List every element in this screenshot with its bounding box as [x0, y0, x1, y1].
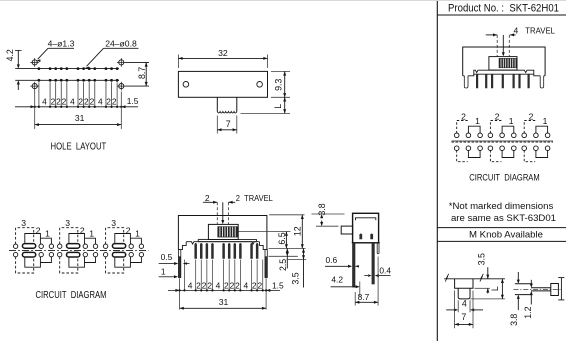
right mounting leg	[265, 250, 267, 278]
mk panel line with breaks	[444, 278, 505, 280]
svg-text:2: 2	[252, 280, 257, 290]
pole 2 terminals bottom row	[58, 252, 62, 256]
hole pitch extension lines	[38, 82, 40, 106]
svg-text:2: 2	[495, 111, 500, 121]
svg-text:TRAVEL: TRAVEL	[525, 26, 555, 36]
dim 7 top view	[216, 116, 218, 134]
mks stem lines	[531, 287, 551, 289]
pole 3 wire position 1 top	[130, 238, 141, 244]
mks cap height bracket	[560, 278, 562, 300]
rp pole 2 wire position 2 top (dashed)	[490, 121, 501, 134]
pin area top edge with notches	[186, 242, 259, 244]
svg-text:31: 31	[75, 113, 85, 123]
pin pitch chain dimension	[168, 289, 280, 291]
top view handle sides	[216, 97, 218, 111]
mks cap	[551, 284, 559, 296]
mks center line	[514, 288, 561, 290]
dim 31 hole layout	[34, 90, 36, 129]
svg-text:3.8: 3.8	[509, 314, 519, 326]
svg-text:3: 3	[21, 218, 26, 228]
rp hatched bus line	[452, 140, 554, 142]
rp body outline	[463, 47, 545, 76]
top view handle serrated end	[217, 112, 237, 114]
front body outline	[178, 216, 267, 250]
svg-text:4.2: 4.2	[331, 275, 343, 285]
svg-text:are same as SKT-63D01: are same as SKT-63D01	[451, 213, 556, 224]
rp pole 1 wire position 2 bottom (dashed)	[457, 150, 468, 162]
mk flange bottom extension	[475, 287, 490, 289]
pole 2 wire position 2 bottom	[69, 257, 85, 267]
side view of switch	[312, 203, 392, 305]
mk flange	[455, 279, 473, 289]
svg-text:1.2: 1.2	[523, 306, 533, 318]
dim 31 front view	[180, 307, 267, 309]
dim 3.8 side view	[312, 213, 345, 215]
svg-text:2.5: 2.5	[278, 259, 288, 271]
pole 3 slider contact top	[112, 244, 125, 249]
svg-text:2: 2	[62, 97, 67, 107]
svg-text:HOLE LAYOUT: HOLE LAYOUT	[51, 141, 107, 152]
rp pole 2 wire position 1 bottom	[502, 150, 514, 157]
svg-text:4: 4	[514, 26, 519, 36]
dim 2.5	[286, 248, 288, 268]
rp left small leg	[464, 76, 468, 88]
rp knob base	[489, 57, 517, 71]
svg-text:4: 4	[244, 280, 249, 290]
svg-text:2: 2	[205, 193, 210, 203]
rp pole 3 wire position 1 top	[536, 126, 548, 133]
extension line seat	[269, 247, 306, 249]
svg-text:2: 2	[461, 111, 466, 121]
pole 1 wire position 2 top	[25, 234, 41, 245]
svg-text:CIRCUIT DIAGRAM: CIRCUIT DIAGRAM	[36, 290, 107, 301]
side legs	[352, 243, 355, 287]
rp pole 3 wire position 2 bottom (dashed)	[524, 150, 535, 162]
contact pins front	[194, 243, 197, 259]
right circuit diagram (3 poles)	[452, 111, 554, 183]
svg-text:7: 7	[226, 119, 231, 129]
mk stem	[458, 288, 470, 299]
dim 3.5	[303, 248, 305, 287]
svg-text:4: 4	[462, 299, 467, 309]
left mounting leg	[179, 250, 181, 278]
svg-text:1: 1	[509, 116, 514, 126]
rp travel center line	[502, 35, 504, 53]
top view body rectangle	[178, 71, 267, 97]
rp pole 1 wire position 2 top (dashed)	[457, 121, 468, 134]
svg-text:0.6: 0.6	[325, 255, 337, 265]
svg-text:1: 1	[135, 229, 140, 239]
rp knob ribs	[499, 58, 517, 67]
body side steps right	[260, 242, 267, 250]
extension line pin tips	[287, 258, 307, 260]
svg-text:2: 2	[84, 97, 89, 107]
svg-text:2: 2	[112, 97, 117, 107]
travel center line with arrow	[222, 202, 224, 220]
svg-text:4.2: 4.2	[5, 49, 15, 61]
travel dashed projection lines	[216, 202, 218, 224]
rp pole 1 terminals	[454, 133, 459, 138]
hole layout view	[5, 39, 149, 153]
rp seat second line	[474, 73, 534, 75]
pole 2 wire position 1 top	[85, 238, 96, 244]
pole 3 wire position 3 bottom (dashed)	[106, 257, 124, 273]
svg-text:L: L	[490, 286, 500, 291]
svg-text:6.5: 6.5	[277, 232, 287, 244]
svg-text:4: 4	[188, 280, 193, 290]
pole 3 wire position 2 top	[115, 234, 131, 245]
right panel switch front view	[463, 26, 556, 89]
right extension line from body top	[269, 214, 304, 216]
svg-text:3.5: 3.5	[476, 253, 486, 265]
pole 2 slider contact bottom	[67, 252, 80, 257]
svg-text:2: 2	[80, 225, 85, 235]
pole 2 slider contact top	[67, 244, 80, 249]
svg-text:7: 7	[461, 312, 466, 322]
mks dim 3.8	[517, 272, 519, 280]
svg-text:2: 2	[56, 97, 61, 107]
svg-text:8.7: 8.7	[137, 67, 147, 79]
svg-text:12: 12	[293, 226, 303, 236]
pole 3 terminals bottom row	[103, 252, 107, 256]
svg-text:2: 2	[106, 97, 111, 107]
pole 2 wire position 1 bottom	[85, 257, 96, 263]
pole 2 wire position 2 top	[69, 234, 85, 245]
pole 2 terminals top row	[58, 244, 62, 248]
svg-text:1: 1	[161, 267, 166, 277]
side body rectangle	[353, 213, 379, 243]
rp pole 3 wire position 1 bottom	[536, 150, 548, 157]
pole 2 wire position 3 top (dashed)	[60, 228, 78, 244]
rp pole 2 terminals	[488, 133, 493, 138]
extension line 6.5 top	[238, 231, 290, 233]
mk dim 4	[457, 300, 459, 312]
side inner pins	[359, 234, 362, 240]
M knob section divider top	[437, 227, 566, 229]
extension line tab bottom	[269, 255, 298, 257]
svg-text:1: 1	[475, 116, 480, 126]
svg-text:1: 1	[543, 116, 548, 126]
left circuit diagram (4P3T)	[9, 218, 149, 301]
svg-text:32: 32	[218, 48, 228, 58]
hole row line bottom	[15, 79, 119, 81]
M knob section divider bottom	[437, 240, 566, 242]
dim 12	[301, 215, 303, 249]
pole 3 slider contact bottom	[112, 252, 125, 257]
dim 8.7 right	[125, 61, 149, 63]
pole 3 wire position 2 bottom	[115, 257, 131, 267]
center line (dash-dot)	[9, 249, 149, 251]
side bottom line	[352, 242, 380, 244]
svg-text:2: 2	[230, 280, 235, 290]
rp bottom outline with seat	[463, 75, 465, 77]
svg-text:3.5: 3.5	[291, 272, 301, 284]
svg-text:4: 4	[216, 280, 221, 290]
svg-text:1.5: 1.5	[127, 96, 139, 106]
svg-text:1: 1	[45, 229, 50, 239]
side knob	[341, 226, 352, 234]
svg-text:2: 2	[207, 280, 212, 290]
pole 3 terminals top row	[103, 244, 107, 248]
dim 32	[177, 55, 179, 69]
rp pole 3 wire position 2 top (dashed)	[524, 121, 535, 134]
svg-text:2: 2	[529, 111, 534, 121]
top view mounting holes	[183, 82, 189, 88]
pole 3 wire position 3 top (dashed)	[106, 228, 124, 244]
M knob front view	[444, 253, 505, 328]
dim 6.5	[285, 232, 287, 249]
pole 2 wire position 3 bottom (dashed)	[60, 257, 78, 273]
header underline	[437, 14, 566, 16]
mk stem bottom extension	[471, 298, 505, 300]
svg-text:0.4: 0.4	[379, 265, 391, 275]
pole 1 slider contact bottom	[22, 252, 35, 257]
svg-text:3.8: 3.8	[317, 203, 327, 215]
svg-text:2: 2	[224, 280, 229, 290]
M knob side view	[509, 272, 565, 326]
svg-text:L: L	[273, 104, 283, 109]
24 small holes (dots)	[38, 67, 41, 70]
rp pole 2 wire position 1 top	[502, 126, 514, 133]
rp contact pins	[476, 74, 478, 89]
svg-text:2 TRAVEL: 2 TRAVEL	[236, 193, 273, 203]
rp pole 1 wire position 1 top	[468, 126, 480, 133]
pole 1 slider contact top	[22, 244, 35, 249]
svg-text:31: 31	[219, 297, 229, 307]
mk dim 7	[454, 291, 456, 329]
pole 1 wire position 1 bottom	[40, 257, 51, 263]
pole 3 wire position 1 bottom	[130, 257, 141, 263]
rp pole 2 wire position 2 bottom (dashed)	[490, 150, 501, 162]
rp pole 3 terminals	[522, 133, 527, 138]
svg-text:24–ø0.8: 24–ø0.8	[105, 39, 137, 49]
base plate front	[198, 238, 208, 240]
svg-text:2: 2	[126, 225, 131, 235]
svg-text:4: 4	[70, 97, 75, 107]
right panel border	[436, 0, 438, 341]
rp pole 1 wire position 1 bottom	[468, 150, 480, 157]
body side steps left	[178, 242, 186, 250]
dim 9.3	[271, 70, 290, 72]
svg-text:2: 2	[51, 97, 56, 107]
svg-text:3: 3	[65, 218, 70, 228]
svg-text:2: 2	[78, 97, 83, 107]
side right wall tab	[377, 244, 379, 254]
pole 1 wire position 1 top	[40, 238, 51, 244]
rp right small leg	[540, 76, 544, 88]
4 corner holes o1.3 with crosshairs	[32, 60, 37, 65]
hole pitch chain dimension line	[15, 106, 138, 108]
svg-text:2: 2	[202, 280, 207, 290]
dim L top view	[241, 112, 291, 114]
front view of switch with dimensions	[159, 193, 307, 310]
hole row line top	[15, 68, 119, 70]
svg-text:M Knob Available: M Knob Available	[469, 230, 543, 241]
rp travel dashed lines	[496, 35, 498, 57]
svg-text:3: 3	[111, 218, 116, 228]
pin extension lines	[184, 260, 186, 291]
svg-text:4: 4	[42, 97, 47, 107]
svg-text:4: 4	[98, 97, 103, 107]
svg-text:1.5: 1.5	[272, 280, 284, 290]
pole 1 wire position 3 bottom (dashed)	[16, 257, 34, 273]
svg-text:CIRCUIT DIAGRAM: CIRCUIT DIAGRAM	[469, 173, 539, 184]
svg-text:1: 1	[89, 229, 94, 239]
scan edge top	[0, 0, 566, 2]
svg-text:4–ø1.3: 4–ø1.3	[48, 39, 75, 49]
top view of switch	[178, 48, 290, 134]
knob base front	[208, 224, 238, 239]
svg-text:2: 2	[257, 280, 262, 290]
svg-text:Product No. : SKT-62H01: Product No. : SKT-62H01	[448, 2, 559, 14]
svg-text:2: 2	[36, 225, 41, 235]
svg-text:9.3: 9.3	[274, 79, 284, 91]
svg-text:8.7: 8.7	[358, 292, 370, 302]
svg-text:2: 2	[235, 280, 240, 290]
svg-text:2: 2	[90, 97, 95, 107]
mks body lines	[515, 283, 532, 285]
svg-text:*Not marked dimensions: *Not marked dimensions	[449, 201, 554, 212]
svg-text:0.5: 0.5	[161, 252, 173, 262]
pole 1 terminals bottom row	[13, 252, 17, 256]
mks dim 1.2	[530, 280, 532, 284]
svg-text:2: 2	[196, 280, 201, 290]
pole 1 wire position 3 top (dashed)	[16, 228, 34, 244]
pole 1 wire position 2 bottom	[25, 257, 41, 267]
side body inner lid line	[356, 218, 376, 221]
knob ribs front	[218, 227, 238, 238]
pole 1 terminals top row	[13, 244, 17, 248]
